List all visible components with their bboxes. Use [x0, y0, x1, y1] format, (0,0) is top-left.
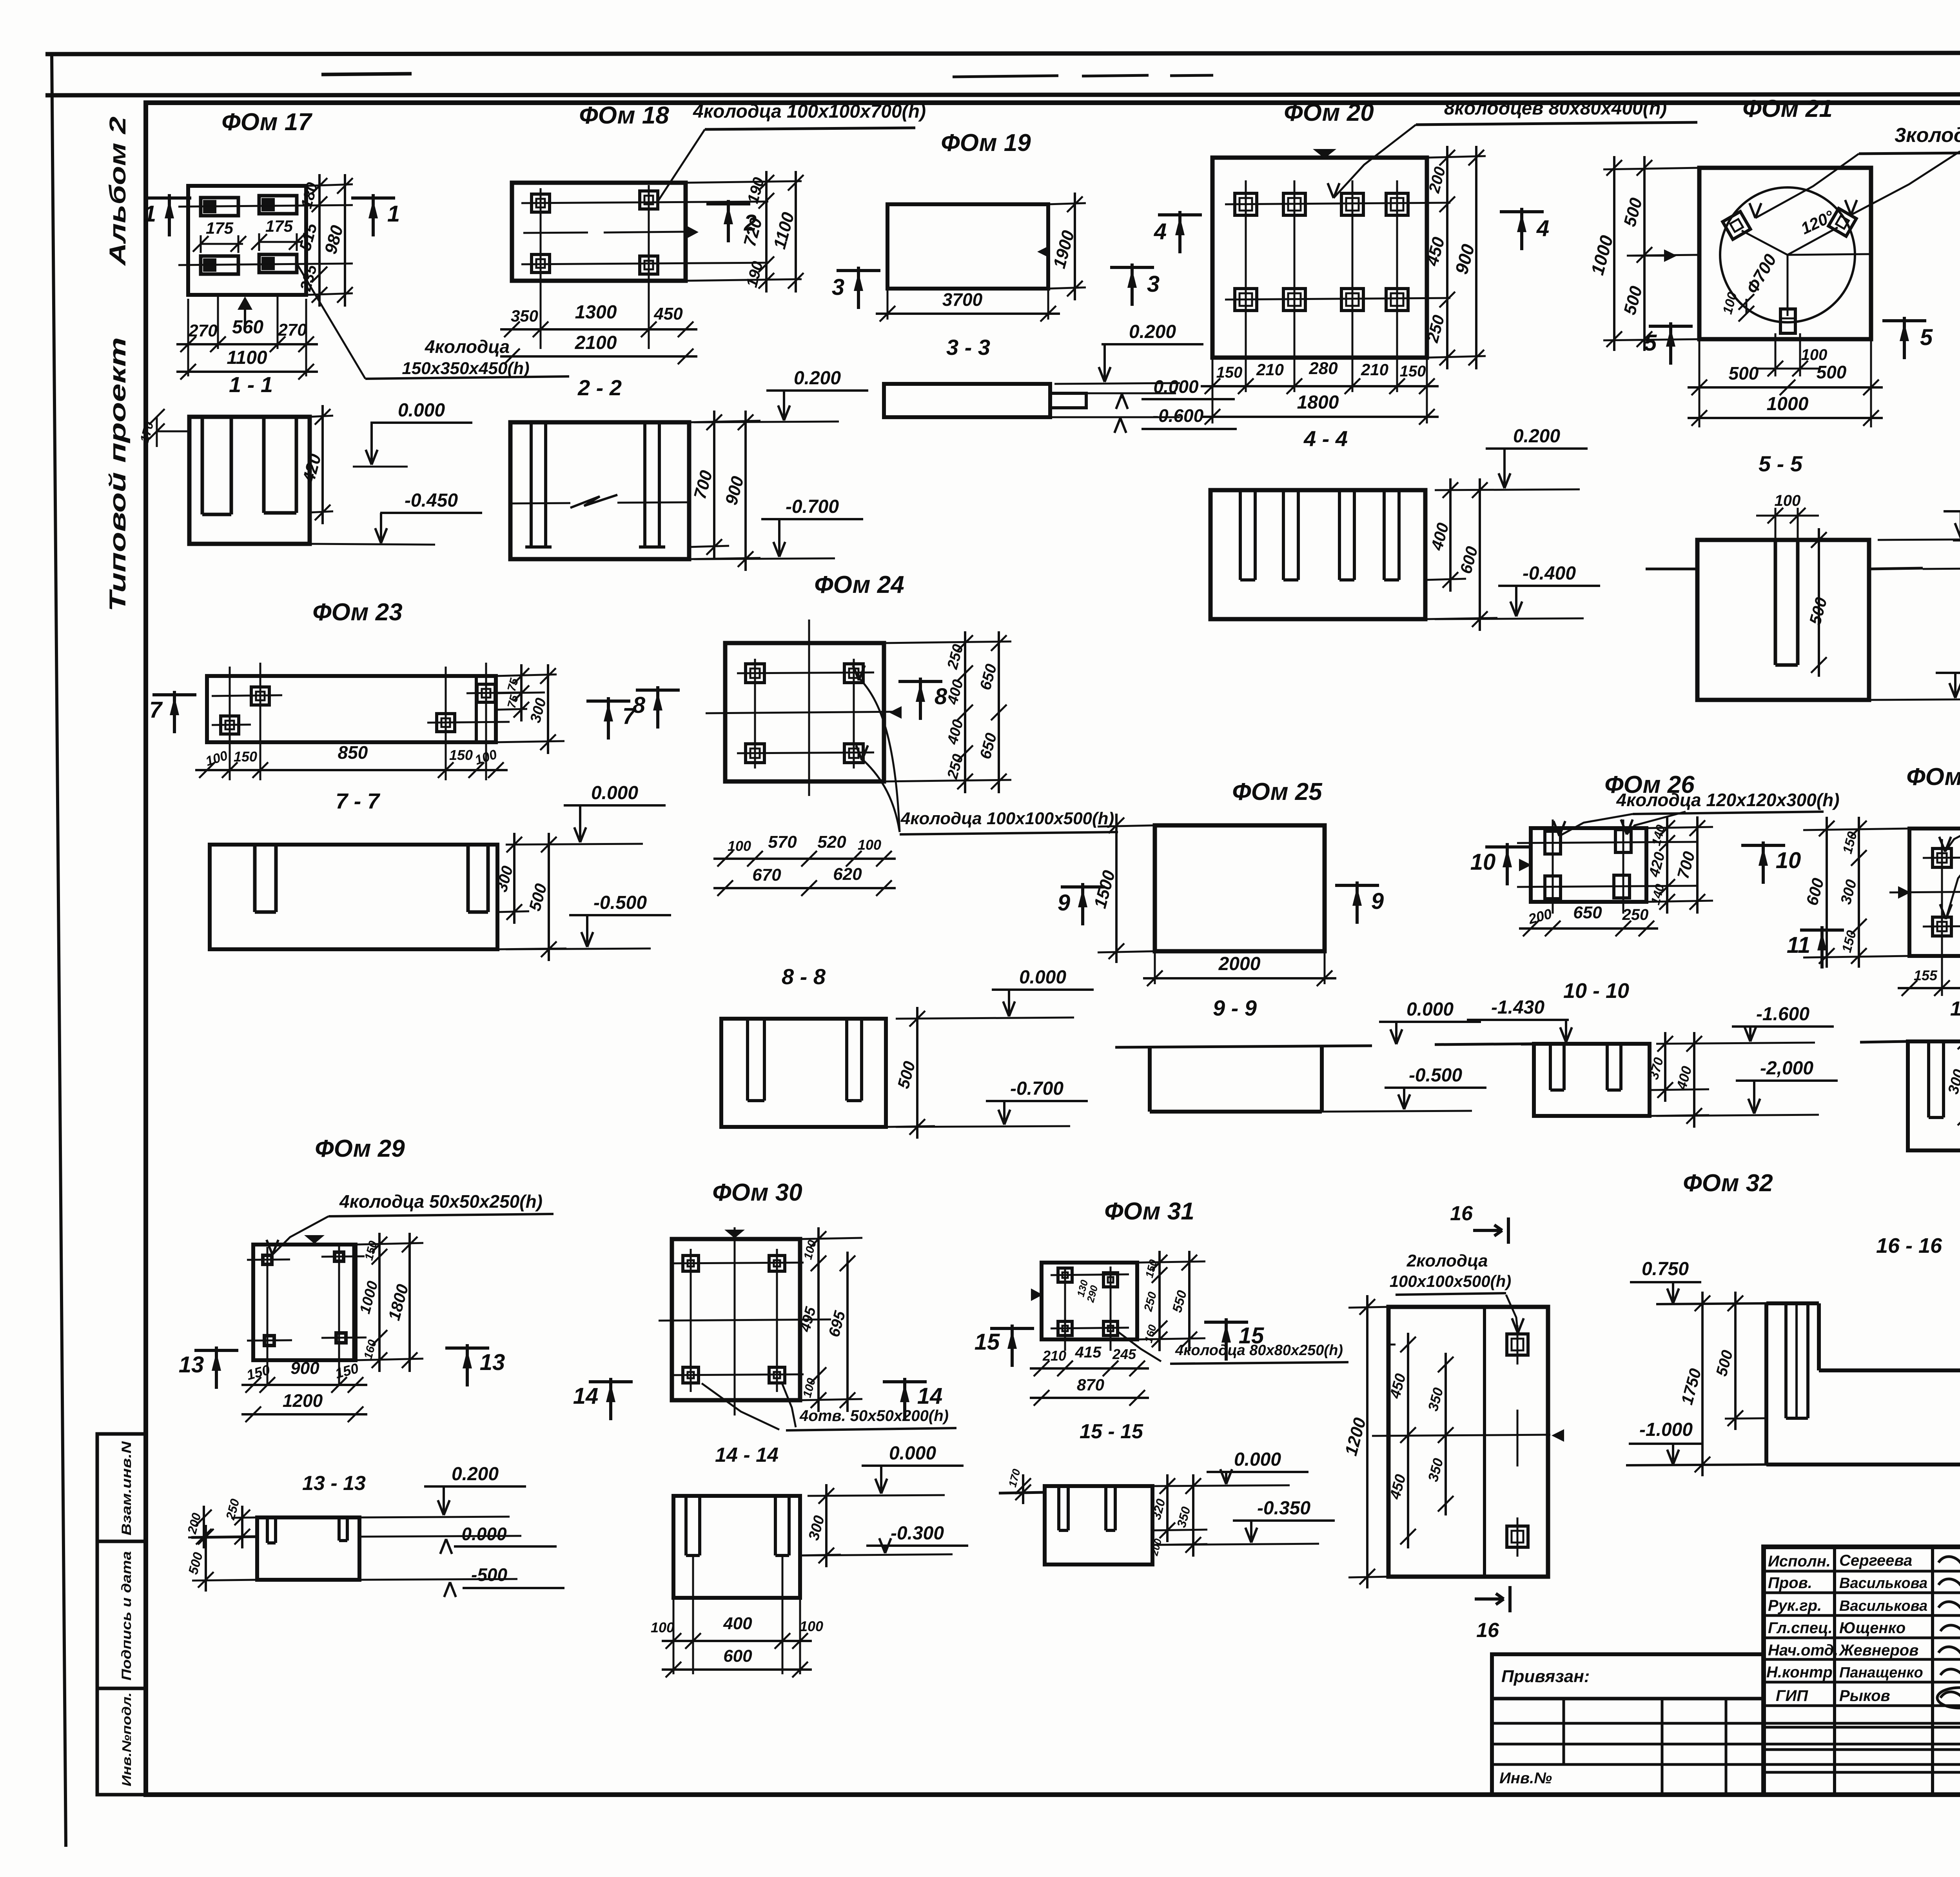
svg-text:8 - 8: 8 - 8	[782, 964, 826, 989]
section 15-15 slot left	[1057, 1486, 1060, 1530]
svg-text:250: 250	[1622, 906, 1649, 923]
svg-text:7: 7	[149, 697, 163, 723]
svg-text:1500: 1500	[1091, 868, 1119, 910]
svg-text:270: 270	[278, 320, 307, 340]
ФОм 29 wells note leader	[272, 1216, 328, 1255]
section 1-1 slot left	[201, 417, 204, 514]
ФОм 21 circle Ф700	[1720, 187, 1855, 322]
annex table columns	[1563, 1699, 1565, 1764]
ФОм 17 well 4	[259, 254, 297, 273]
section 8-8 slot right	[845, 1019, 848, 1101]
svg-text:1200: 1200	[1341, 1415, 1370, 1458]
ФОм 18 axis arrow	[687, 226, 699, 238]
section 13-13 outline	[257, 1517, 359, 1580]
ФОм 21 left axis arrow	[1664, 249, 1677, 262]
ФОм 18 right dim chain 190 720 190	[686, 181, 802, 183]
ФОм 30 well 2	[769, 1256, 785, 1271]
svg-text:100: 100	[800, 1377, 818, 1399]
ФОм 23 well 2	[221, 716, 239, 734]
ФОм 20 right dim 900	[1475, 146, 1477, 369]
svg-text:0.750: 0.750	[1642, 1259, 1689, 1279]
svg-text:3колодца 100х160х500(h): 3колодца 100х160х500(h)	[1895, 124, 1960, 147]
ФОм 26 right dim chain 140 420 140	[1666, 816, 1668, 914]
ФОм 27 axis arrow	[1898, 886, 1911, 899]
svg-text:2колодца: 2колодца	[1406, 1251, 1488, 1270]
section 13-13 slot left	[266, 1517, 269, 1543]
ФОм 29 plan heavy right edge	[352, 1245, 356, 1360]
section 5-5 ground lines	[1646, 568, 1697, 571]
ФОм 29 well 4	[334, 1331, 348, 1345]
svg-text:100: 100	[858, 837, 881, 853]
svg-text:100: 100	[801, 1239, 819, 1261]
ФОм 32 section mark 16 bottom	[1475, 1597, 1504, 1601]
svg-text:120°: 120°	[1798, 207, 1837, 238]
ФОм 20 wells note leader	[1334, 125, 1416, 198]
svg-text:Ющенко: Ющенко	[1839, 1619, 1906, 1637]
svg-text:0.200: 0.200	[794, 368, 841, 389]
ФОм 31 right dims 150 250 550 160	[1158, 1251, 1161, 1351]
svg-text:695: 695	[826, 1309, 849, 1339]
section 8-8 dim 500	[916, 1007, 918, 1139]
svg-text:0.000: 0.000	[1406, 999, 1454, 1020]
svg-text:100: 100	[1801, 346, 1828, 363]
svg-text:100: 100	[1775, 492, 1801, 509]
ФОм 18 axis centerline	[523, 233, 588, 233]
svg-text:2100: 2100	[575, 333, 617, 353]
ФОм 17 well 3	[201, 256, 238, 274]
ФОм 26 bottom dim chain 200 650 250	[1519, 927, 1658, 930]
ФОм 23 section mark 7 left	[152, 693, 196, 696]
svg-text:Исполн.: Исполн.	[1768, 1553, 1831, 1570]
ФОм 21 plan outline	[1699, 168, 1871, 339]
svg-text:-0.700: -0.700	[786, 496, 839, 517]
svg-text:Гл.спец.: Гл.спец.	[1768, 1619, 1833, 1637]
svg-text:2000: 2000	[1218, 954, 1261, 974]
section 16-16 slot left	[1784, 1303, 1788, 1418]
ФОм 17 right dim 980	[344, 174, 346, 307]
svg-text:ФОм 27: ФОм 27	[1906, 763, 1960, 790]
svg-text:0.200: 0.200	[452, 1464, 499, 1485]
svg-text:4: 4	[1154, 219, 1167, 244]
section 11-11 ground lines	[1860, 1041, 1908, 1042]
svg-text:420: 420	[1646, 850, 1668, 879]
svg-text:-1.600: -1.600	[1756, 1004, 1809, 1025]
ФОм 21 bottom dim chain 500 500	[1699, 339, 1700, 427]
ФОм 29 section mark 13 left	[194, 1349, 238, 1352]
title block signature rows	[1764, 1570, 1960, 1573]
section 9-9 ground line	[1115, 1046, 1372, 1047]
svg-text:0.000: 0.000	[889, 1443, 936, 1464]
svg-text:450: 450	[653, 304, 683, 323]
svg-text:8колодцев 80х80х400(h): 8колодцев 80х80х400(h)	[1444, 98, 1667, 119]
svg-text:620: 620	[833, 865, 862, 884]
svg-text:14: 14	[917, 1383, 943, 1409]
section 13-13 left dims 250 200 500	[241, 1506, 243, 1548]
svg-text:175: 175	[265, 217, 293, 235]
section 2-2 dim 900	[689, 558, 760, 559]
section 16-16 dim 1750	[1701, 1292, 1704, 1476]
svg-text:100: 100	[800, 1618, 823, 1634]
svg-text:15: 15	[1239, 1323, 1264, 1348]
svg-text:1000: 1000	[357, 1279, 381, 1316]
svg-text:150: 150	[333, 1360, 360, 1381]
svg-text:-1.430: -1.430	[1491, 997, 1544, 1018]
svg-text:250: 250	[944, 643, 967, 671]
svg-text:400: 400	[1673, 1064, 1695, 1092]
ФОм 21 section mark 5 left	[1649, 325, 1693, 328]
section 2-2 channel right	[643, 422, 646, 547]
svg-text:-0.600: -0.600	[1152, 405, 1204, 426]
svg-text:150: 150	[449, 747, 473, 763]
ФОм 32 plan outline	[1388, 1307, 1548, 1577]
svg-text:1100: 1100	[227, 347, 267, 368]
svg-text:700: 700	[1673, 849, 1699, 881]
ФОм 30 centerlines	[734, 1227, 736, 1415]
ФОм 29 right dim 1800	[408, 1233, 411, 1372]
svg-text:-0.300: -0.300	[891, 1523, 944, 1544]
ФОм 26 plan outline	[1531, 828, 1646, 902]
ФОм 27 centerlines	[1941, 839, 1943, 996]
svg-text:ФОм 18: ФОм 18	[579, 102, 669, 129]
svg-text:170: 170	[1006, 1468, 1023, 1489]
ФОм 24 section mark 8 left	[636, 689, 680, 692]
ФОм 26 right dim 700	[1696, 816, 1699, 914]
svg-text:Типовой проект: Типовой проект	[105, 337, 131, 612]
svg-text:280: 280	[1308, 359, 1338, 378]
ФОм 19 edge arrow	[1037, 246, 1048, 257]
svg-text:7 - 7: 7 - 7	[336, 789, 381, 813]
svg-text:5: 5	[1644, 330, 1657, 356]
ФОм 20 section mark 4 right	[1500, 210, 1544, 213]
ФОм 20 right dim chain 200 450 250	[1427, 156, 1486, 158]
ФОм 18 right dim 1100	[795, 171, 797, 293]
section 1-1 slot right	[262, 417, 266, 513]
svg-text:500: 500	[186, 1551, 206, 1576]
svg-text:100х100х500(h): 100х100х500(h)	[1390, 1272, 1512, 1290]
svg-text:150: 150	[234, 749, 257, 765]
svg-text:Инв.№: Инв.№	[1499, 1770, 1552, 1787]
ФОм 27 well 1	[1933, 849, 1951, 867]
svg-text:-0.500: -0.500	[1409, 1065, 1462, 1086]
ФОм 32 wells note leader	[1506, 1295, 1518, 1333]
section 9-9 outline	[1148, 1047, 1152, 1112]
ФОм 19 bottom dim 3700	[887, 289, 889, 320]
ФОм 30 plan outline	[672, 1239, 800, 1400]
svg-text:Рыков: Рыков	[1839, 1687, 1890, 1704]
ФОм 18 well 1	[532, 194, 550, 212]
ФОм 17 right dim chain 180 515 235	[306, 184, 353, 186]
svg-text:9 - 9: 9 - 9	[1213, 996, 1257, 1020]
svg-text:2 - 2: 2 - 2	[577, 375, 622, 400]
ФОм 30 well 3	[683, 1367, 699, 1383]
svg-text:Ф700: Ф700	[1742, 251, 1780, 297]
ФОм 25 bottom dim 2000	[1154, 951, 1156, 984]
svg-text:4колодца 100х100х500(h): 4колодца 100х100х500(h)	[900, 809, 1114, 828]
svg-text:10 - 10: 10 - 10	[1563, 979, 1629, 1003]
section 4-4 dim 600	[1425, 618, 1497, 619]
ФОм 25 section mark 9 left	[1061, 885, 1105, 889]
ФОм 31 axis arrow	[1031, 1288, 1043, 1301]
ФОм 21 left dim chain 500 500	[1603, 168, 1699, 169]
section 8-8 outline	[721, 1019, 886, 1127]
ФОм 18 section mark 2	[706, 202, 750, 205]
svg-text:Пров.: Пров.	[1768, 1574, 1812, 1592]
svg-text:4: 4	[1536, 216, 1549, 241]
ФОм 17 leader 4колодца 150х350х450(h)	[297, 263, 365, 379]
ФОм 20 bottom dim 1800	[1212, 358, 1214, 423]
section 14-14 bottom dim 600	[662, 1668, 812, 1671]
ФОм 23 well 3	[437, 714, 455, 732]
ФОм 27 wells note leaders	[1945, 814, 1960, 852]
svg-text:250: 250	[944, 752, 967, 781]
svg-text:-500: -500	[471, 1564, 507, 1585]
svg-text:ФОм 20: ФОм 20	[1284, 99, 1374, 126]
ФОм 26 section mark 10 right	[1741, 844, 1785, 847]
svg-text:350: 350	[1425, 1456, 1446, 1483]
svg-text:-0.500: -0.500	[593, 892, 647, 913]
svg-text:100: 100	[651, 1619, 674, 1635]
svg-text:ФОм 30: ФОм 30	[712, 1179, 802, 1206]
svg-text:500: 500	[1817, 362, 1847, 382]
section 7-7 dim 300	[513, 833, 515, 924]
ФОм 27 section mark 11 left	[1800, 929, 1844, 932]
ФОм 26 well 2	[1615, 830, 1631, 852]
ФОм 29 right dim chain 150 1000 160	[356, 1243, 423, 1245]
ФОм 30 well 4	[769, 1367, 785, 1383]
section 14-14 outline	[673, 1496, 800, 1598]
svg-text:4колодца 50х50х250(h): 4колодца 50х50х250(h)	[339, 1191, 543, 1212]
svg-text:11 - 11: 11 - 11	[1950, 998, 1960, 1020]
ФОм 26 wells note leaders	[1559, 814, 1633, 836]
svg-text:1800: 1800	[1297, 392, 1339, 413]
ФОм 24 well 2	[844, 664, 863, 683]
svg-text:5 - 5: 5 - 5	[1759, 451, 1803, 476]
ФОм 27 bottom dim chain 155 240 155	[1898, 987, 1960, 989]
svg-text:170: 170	[137, 420, 156, 444]
title block signature columns	[1833, 1547, 1836, 1795]
svg-text:0.000: 0.000	[1019, 967, 1066, 988]
svg-text:Рук.гр.: Рук.гр.	[1768, 1597, 1822, 1614]
sheet outer border top line	[45, 53, 1960, 54]
ФОм 21 well top-left	[1722, 211, 1750, 239]
svg-text:Панащенко: Панащенко	[1839, 1664, 1923, 1681]
section 2-2 break line	[510, 503, 570, 503]
section 2-2 dim 700	[689, 421, 760, 422]
svg-text:150: 150	[1216, 364, 1243, 381]
ФОм 31 bottom dim chain 210 415 245	[1030, 1367, 1149, 1370]
svg-text:600: 600	[723, 1646, 752, 1666]
svg-text:560: 560	[232, 317, 263, 338]
section 5-5 outline	[1697, 540, 1869, 700]
svg-text:ФОм 31: ФОм 31	[1104, 1198, 1194, 1225]
ФОм 21 left dim 1000	[1613, 156, 1615, 351]
svg-text:300: 300	[527, 696, 550, 725]
section 1-1 outline	[189, 417, 310, 544]
svg-text:500: 500	[1620, 196, 1646, 229]
annex table rows	[1492, 1722, 1960, 1725]
svg-text:150: 150	[1839, 929, 1859, 954]
svg-text:15: 15	[975, 1329, 1000, 1355]
svg-text:ФОм 23: ФОм 23	[312, 599, 402, 626]
ФОм 17 plan outline	[188, 186, 306, 295]
ФОм 32 plan inner edge	[1483, 1307, 1486, 1577]
svg-text:900: 900	[722, 474, 748, 507]
margin stamp cell Подпись и дата	[97, 1541, 146, 1688]
section 2-2 channel left	[530, 422, 533, 547]
svg-text:350: 350	[1425, 1386, 1446, 1413]
section 5-5 dim 500	[1818, 528, 1820, 677]
section 1-1 left stub dim 170	[157, 431, 189, 432]
ФОм 21 wells note leaders	[1755, 154, 1859, 218]
svg-text:-0.400: -0.400	[1523, 563, 1576, 584]
section 4-4 slots	[1239, 490, 1242, 580]
section 3-3 slab	[884, 384, 1050, 417]
ФОм 29 well 1	[261, 1254, 274, 1266]
svg-text:350: 350	[1174, 1505, 1193, 1529]
svg-text:14 - 14: 14 - 14	[715, 1444, 779, 1466]
svg-text:0.200: 0.200	[1129, 322, 1176, 342]
section 13-13 ground line	[191, 1537, 257, 1537]
ФОм 24 well 1	[746, 664, 764, 683]
svg-text:0.000: 0.000	[591, 783, 638, 803]
ФОм 18 well centerlines	[521, 202, 768, 203]
ФОм 24 plan outline	[725, 643, 884, 781]
ФОм 30 right dim 695	[846, 1252, 849, 1412]
svg-text:Жевнеров: Жевнеров	[1838, 1642, 1918, 1659]
svg-text:0.000: 0.000	[398, 400, 445, 421]
ФОм 32 well top	[1507, 1334, 1528, 1355]
ФОм 27 well 3	[1933, 917, 1951, 936]
section 3-3 step	[1050, 393, 1086, 408]
ФОм 25 left dim 1500	[1098, 825, 1155, 827]
ФОм 27 plan outline	[1909, 829, 1960, 956]
svg-text:1300: 1300	[575, 302, 617, 323]
section 14-14 slot right	[774, 1496, 777, 1555]
ФОм 24 well 4	[844, 744, 863, 763]
svg-text:-0.700: -0.700	[1010, 1078, 1063, 1099]
svg-text:415: 415	[1075, 1344, 1102, 1361]
svg-text:600: 600	[1802, 876, 1828, 907]
ФОм 29 plan outline	[253, 1245, 356, 1360]
ФОм 31 plan outline	[1042, 1263, 1137, 1339]
svg-text:150: 150	[1400, 363, 1426, 380]
svg-text:400: 400	[944, 718, 967, 747]
svg-text:16: 16	[1476, 1619, 1499, 1642]
svg-text:1800: 1800	[385, 1282, 412, 1322]
section 4-4 outline	[1210, 490, 1425, 619]
section 15-15 ground line	[999, 1492, 1045, 1493]
svg-text:9: 9	[1371, 889, 1384, 914]
svg-text:0.000: 0.000	[461, 1524, 507, 1544]
svg-text:500: 500	[1729, 363, 1759, 383]
svg-text:15 - 15: 15 - 15	[1080, 1420, 1143, 1443]
svg-text:Альбом 2: Альбом 2	[105, 116, 131, 267]
svg-text:100: 100	[473, 747, 499, 768]
svg-text:4 - 4: 4 - 4	[1303, 426, 1348, 451]
svg-text:150х350х450(h): 150х350х450(h)	[402, 359, 529, 378]
svg-text:5: 5	[1920, 325, 1933, 350]
ФОм 21 spokes	[1742, 231, 1788, 255]
ФОм 29 section mark 13 right	[445, 1346, 489, 1350]
svg-text:0.200: 0.200	[1513, 426, 1560, 447]
svg-text:515: 515	[296, 221, 321, 253]
svg-text:210: 210	[1042, 1348, 1066, 1364]
svg-text:1: 1	[387, 201, 400, 227]
svg-text:175: 175	[206, 219, 234, 237]
svg-text:210: 210	[1361, 360, 1388, 379]
section 10-10 slot left	[1549, 1044, 1552, 1090]
ФОм 29 top triangle mark	[304, 1235, 325, 1244]
svg-text:210: 210	[1256, 360, 1284, 379]
svg-text:870: 870	[1077, 1375, 1104, 1394]
section 10-10 outline	[1534, 1044, 1650, 1116]
svg-text:ФОм 32: ФОм 32	[1683, 1170, 1773, 1197]
ФОм 21 bottom dim 100	[1775, 333, 1777, 376]
svg-text:ФОм 19: ФОм 19	[941, 129, 1031, 156]
svg-text:150: 150	[1840, 830, 1860, 856]
ФОм 18 plan outline	[512, 183, 686, 281]
ФОм 20 wells row 2	[1235, 289, 1257, 311]
ФОм 26 well 4	[1614, 875, 1630, 898]
ФОм 18 well 4	[640, 256, 658, 274]
svg-text:235: 235	[297, 263, 320, 293]
svg-text:1 - 1: 1 - 1	[229, 372, 273, 397]
svg-text:8: 8	[633, 692, 646, 718]
ФОм 19 section mark 3 right	[1110, 266, 1154, 269]
ФОм 20 wells row 1	[1235, 193, 1257, 215]
ФОм 21 well bottom	[1780, 309, 1795, 333]
ФОм 23 well 1	[251, 687, 269, 705]
section 15-15 outline	[1045, 1486, 1152, 1564]
ФОм 32 axis arrow	[1552, 1429, 1564, 1442]
svg-text:-1.000: -1.000	[1639, 1419, 1693, 1440]
ФОм 26 well 1	[1545, 831, 1561, 854]
ФОм 17 row centerlines	[178, 205, 353, 207]
ФОм 30 top triangle mark	[724, 1230, 745, 1238]
svg-text:Сергеева: Сергеева	[1839, 1552, 1912, 1569]
svg-text:-0.350: -0.350	[1257, 1498, 1310, 1519]
svg-text:300: 300	[806, 1514, 828, 1542]
ФОм 24 well 3	[746, 744, 764, 763]
ФОм 31 well 2	[1103, 1273, 1118, 1287]
section 16-16 profile	[1766, 1301, 1819, 1305]
svg-text:Василькова: Василькова	[1839, 1575, 1927, 1592]
ФОм 20 bottom dim chain 150 210 280 210 150	[1201, 385, 1439, 387]
ФОм 23 plan inner right edge	[475, 676, 478, 742]
svg-text:13 - 13: 13 - 13	[302, 1472, 366, 1495]
ФОм 19 plan outline	[887, 204, 1048, 289]
ФОм 32 left dim chain 450 450	[1407, 1333, 1409, 1548]
svg-text:ФОм 21: ФОм 21	[1742, 95, 1832, 122]
ФОм 23 well centerlines	[229, 667, 231, 780]
svg-text:1: 1	[143, 201, 156, 227]
svg-text:100: 100	[728, 838, 751, 854]
ФОм 18 bottom dim 2100	[500, 355, 697, 358]
ФОм 32 left dim chain 350 350	[1445, 1353, 1447, 1515]
svg-text:1750: 1750	[1677, 1366, 1705, 1406]
svg-text:300: 300	[1838, 878, 1860, 906]
svg-text:1100: 1100	[770, 210, 798, 251]
svg-text:650: 650	[977, 731, 1000, 761]
ФОм 30 well 1	[683, 1256, 699, 1271]
svg-text:200: 200	[1526, 905, 1553, 927]
ФОм 20 plan outline	[1212, 158, 1427, 358]
svg-text:200: 200	[185, 1512, 204, 1536]
svg-text:700: 700	[690, 468, 716, 501]
svg-text:150: 150	[1143, 1258, 1160, 1279]
ФОм 27 left dim chain 150 300 150	[1803, 829, 1909, 830]
section 7-7 outline	[210, 845, 497, 949]
